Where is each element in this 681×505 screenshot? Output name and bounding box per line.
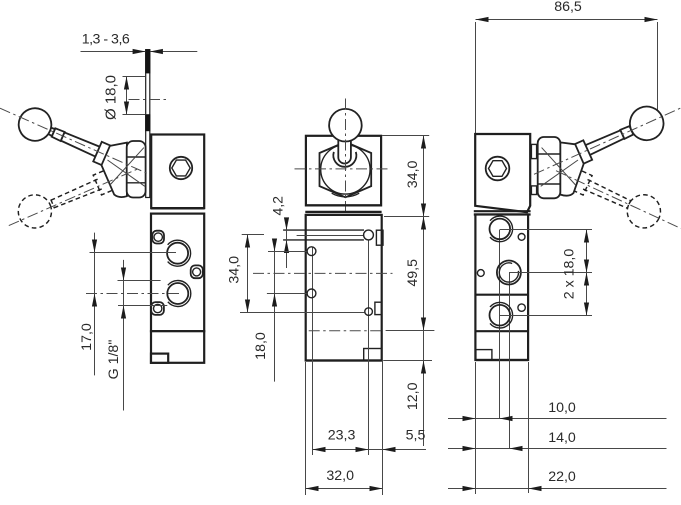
flange lower line xyxy=(151,213,205,215)
port B thread arc xyxy=(499,263,518,282)
dimension line 14,0 xyxy=(448,448,667,450)
axis centreline dashed position xyxy=(556,171,681,229)
nut chamfer diagonal 1 xyxy=(108,160,145,186)
collar xyxy=(573,140,592,164)
dashed boot lower edge xyxy=(113,183,136,204)
svg-text:1,3 - 3,6: 1,3 - 3,6 xyxy=(82,32,130,48)
svg-text:2 x 18,0: 2 x 18,0 xyxy=(561,249,577,300)
extension line pin centre (left of dim 34) xyxy=(242,234,264,236)
lever neck xyxy=(630,123,641,133)
dimension line 4,2 xyxy=(286,218,288,269)
hex socket circle xyxy=(486,157,510,181)
small port right circle xyxy=(193,268,201,276)
dimension line 10,0 xyxy=(448,418,667,420)
mounting hole bottom right xyxy=(365,308,373,316)
lever shaft xyxy=(584,129,624,155)
bottom step notch left xyxy=(476,350,492,360)
flange line 3 xyxy=(305,214,381,216)
body division line 1 xyxy=(475,294,528,296)
small hole right of port A xyxy=(518,234,525,241)
body lower section xyxy=(475,215,528,361)
toggle hex nut xyxy=(320,142,372,197)
rubber boot cone xyxy=(560,142,584,195)
port centre guide vertical B xyxy=(509,273,511,449)
dimension line 2x18 xyxy=(586,230,588,316)
svg-text:49,5: 49,5 xyxy=(405,259,421,287)
body edge extension right xyxy=(382,333,384,495)
nut chamfer diagonal 2 xyxy=(542,148,576,186)
svg-text:23,3: 23,3 xyxy=(328,427,356,443)
G1/8 arrow up xyxy=(121,306,126,319)
panel tab lower xyxy=(531,186,536,195)
extension line body top right xyxy=(382,135,429,137)
body edge extension left xyxy=(305,362,307,495)
dimension 1,3 - 3,6 line right tail xyxy=(150,51,197,53)
lever ferrule xyxy=(620,126,633,139)
svg-text:G 1/8": G 1/8" xyxy=(106,340,122,380)
dashed ferrule xyxy=(51,199,55,208)
port C circle xyxy=(490,305,511,326)
body bottom edge (redraw) xyxy=(475,359,528,361)
port 2 centreline xyxy=(86,293,181,295)
extension line port C centre xyxy=(500,315,592,317)
svg-text:Ø 18,0: Ø 18,0 xyxy=(102,75,119,120)
arrow pointing left at plate right face xyxy=(150,49,163,54)
nut chamfer diagonal 2 xyxy=(110,148,144,186)
dimension line 18,0 xyxy=(274,240,276,382)
small port top-left circle xyxy=(154,233,162,241)
Ø18 arrow down xyxy=(124,102,129,115)
lower centreline xyxy=(309,330,383,332)
body lower section xyxy=(151,214,204,332)
axis centreline of solid lever position xyxy=(0,108,147,173)
mounting hole bottom left xyxy=(307,289,316,298)
panel plate lower solid section xyxy=(145,114,150,131)
17,0 arrow up xyxy=(92,294,97,307)
arrow pointing right at plate left face xyxy=(133,49,146,54)
nut facet line lower xyxy=(127,182,146,184)
small hole left of port B xyxy=(477,270,484,277)
vertical centreline xyxy=(345,99,347,217)
flange line 1 xyxy=(306,204,381,206)
dashed ball knob xyxy=(622,189,666,233)
mounting hole top left xyxy=(307,247,316,256)
svg-text:14,0: 14,0 xyxy=(548,430,576,446)
G1/8 arrow down xyxy=(121,268,126,281)
Ø18 extension line top xyxy=(123,76,146,78)
lever neck xyxy=(44,126,55,136)
nut facet line upper xyxy=(538,153,561,155)
dashed collar xyxy=(573,171,592,195)
collar xyxy=(93,142,112,166)
dashed shaft edge lines xyxy=(587,179,631,200)
extension body left edge down xyxy=(475,362,477,494)
dashed alternate lever position xyxy=(548,157,666,242)
small hole right of port C xyxy=(518,304,525,311)
lever shaft xyxy=(60,132,101,158)
hex socket xyxy=(489,161,507,177)
inner vertical guide left xyxy=(312,247,314,456)
dashed shaft edge lines xyxy=(51,179,98,200)
bottom step notch right xyxy=(364,349,382,361)
svg-text:18,0: 18,0 xyxy=(253,332,269,360)
plate hole centre mark xyxy=(129,99,167,101)
extension body right edge down xyxy=(528,362,530,493)
hex socket xyxy=(172,160,190,176)
ball knob xyxy=(624,101,668,145)
port C thread arc xyxy=(490,302,513,328)
extension line hole top-left centre xyxy=(268,251,307,253)
panel plate outline xyxy=(146,50,150,198)
panel plate upper solid section xyxy=(145,50,150,74)
hex bottom chamfer arc xyxy=(332,193,360,197)
extension line port B centre xyxy=(509,272,592,274)
dimension line 32,0 xyxy=(306,488,383,490)
extension line ball right xyxy=(657,22,659,112)
flange line 2 xyxy=(305,211,381,213)
solid lever xyxy=(14,103,114,171)
mounting nut side view xyxy=(127,141,146,198)
large port 2 circle xyxy=(167,283,188,304)
small port right rounded square xyxy=(191,265,203,278)
dimension line 22,0 xyxy=(448,488,667,490)
ball knob xyxy=(14,103,57,146)
Ø18 arrow up xyxy=(124,77,129,90)
body top section xyxy=(475,134,530,212)
17,0 arrow down xyxy=(92,240,97,253)
Ø18 extension line bottom xyxy=(123,114,146,116)
horizontal centreline of nut xyxy=(295,168,390,170)
spool pin bottom edge xyxy=(283,239,364,241)
svg-text:12,0: 12,0 xyxy=(405,382,421,410)
nut facet line upper xyxy=(127,156,146,158)
body lower section xyxy=(306,215,382,361)
svg-text:10,0: 10,0 xyxy=(548,400,576,416)
extension line port1 centre xyxy=(90,252,177,254)
dimension line 86,5 xyxy=(476,19,658,21)
lever ferrule xyxy=(51,128,64,141)
inner vertical guide right xyxy=(368,240,370,455)
rubber boot cone xyxy=(102,143,127,198)
extension line bottom-right hole centre xyxy=(240,312,365,314)
nut chamfer circle xyxy=(321,145,370,194)
dimension line 34,0 left xyxy=(247,235,249,313)
extension line y=305.5 xyxy=(118,305,167,307)
stem neck with round cap xyxy=(338,140,351,164)
large port 1 thread arc xyxy=(168,240,191,266)
svg-text:4,2: 4,2 xyxy=(270,196,286,216)
extension line port A centre xyxy=(500,229,592,231)
dashed collar xyxy=(93,171,111,195)
nut facet line lower xyxy=(538,183,561,185)
nut chamfer diagonal 1 xyxy=(541,160,578,186)
bottom step notch xyxy=(151,354,168,363)
dashed ferrule xyxy=(627,200,631,209)
svg-text:17,0: 17,0 xyxy=(79,323,95,351)
body division line 2 xyxy=(475,330,528,332)
svg-text:32,0: 32,0 xyxy=(326,468,354,484)
main horizontal centreline xyxy=(253,272,393,274)
Ø18 dimension line xyxy=(126,77,128,115)
dashed alternate lever position xyxy=(13,157,136,241)
dimension line 23,3 / 5,5 xyxy=(313,449,427,451)
clip bottom right xyxy=(375,302,382,314)
port B circle xyxy=(497,261,521,285)
body bottom edge (redraw) xyxy=(306,359,382,361)
hex socket circle xyxy=(170,157,192,179)
dimension line 17,0 xyxy=(94,233,96,376)
svg-text:5,5: 5,5 xyxy=(406,427,426,443)
flange line 1 xyxy=(474,210,531,212)
port centre guide vertical A/C xyxy=(499,230,501,419)
solid lever xyxy=(571,101,669,170)
spool pin end circle xyxy=(364,230,374,240)
flange line xyxy=(151,207,205,209)
extension line bottom right xyxy=(383,360,432,362)
body bottom section xyxy=(151,331,204,363)
svg-text:34,0: 34,0 xyxy=(226,256,242,284)
port A circle xyxy=(490,219,511,240)
small port bottom-left rounded square xyxy=(151,302,164,315)
spool pin top edge xyxy=(283,229,364,231)
dashed boot lower edge xyxy=(548,183,571,204)
dashed ball knob xyxy=(13,190,57,234)
extension line y=280 xyxy=(118,280,161,282)
dimension 1,3 - 3,6 line left tail xyxy=(81,51,146,53)
panel tab upper xyxy=(531,144,536,158)
body top section xyxy=(306,136,381,206)
body top section xyxy=(151,135,204,209)
svg-text:34,0: 34,0 xyxy=(405,160,421,188)
extension line hole bottom-left centre xyxy=(267,293,307,295)
dimension line G 1/8 xyxy=(123,260,125,411)
mounting nut side view xyxy=(538,137,561,198)
small port bottom-left circle xyxy=(154,304,162,312)
right dimension line 34/49.5 xyxy=(423,136,425,447)
svg-text:86,5: 86,5 xyxy=(554,0,582,15)
extension line body left top xyxy=(475,22,477,133)
axis centreline of dashed lever position xyxy=(9,169,138,226)
axis centreline solid position xyxy=(534,108,681,174)
extension line flange right xyxy=(384,216,429,218)
large port 1 circle xyxy=(167,243,188,264)
spool pin mid line xyxy=(297,235,364,237)
extension line lower body right xyxy=(386,330,435,332)
flange line 2 xyxy=(474,213,531,215)
retaining clip top right xyxy=(376,230,383,245)
svg-text:22,0: 22,0 xyxy=(548,469,576,485)
ball knob xyxy=(329,109,362,142)
port A thread arc xyxy=(490,216,513,242)
large port 2 thread arc xyxy=(168,281,191,307)
boot sleeve lower arc xyxy=(333,152,356,167)
small port top-left rounded square xyxy=(152,231,164,244)
